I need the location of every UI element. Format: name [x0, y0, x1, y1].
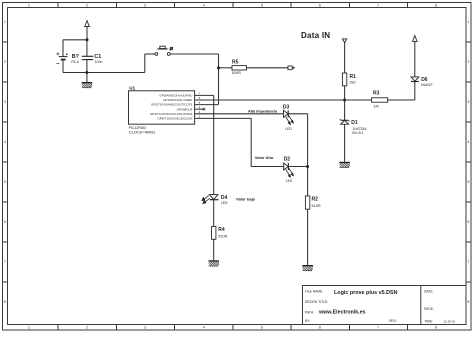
- svg-text:7: 7: [468, 260, 470, 264]
- svg-text:R1: R1: [350, 74, 357, 80]
- svg-text:R4: R4: [218, 227, 225, 233]
- svg-text:U1: U1: [129, 85, 135, 90]
- svg-text:2: 2: [4, 60, 6, 64]
- svg-text:8: 8: [435, 326, 437, 330]
- svg-text:BY:: BY:: [305, 319, 310, 323]
- svg-text:PAGE:: PAGE:: [424, 307, 434, 311]
- svg-text:510R: 510R: [232, 71, 241, 75]
- svg-text:D2: D2: [284, 156, 291, 162]
- svg-text:REV:: REV:: [389, 319, 397, 323]
- svg-text:100n: 100n: [95, 60, 103, 64]
- svg-text:1: 1: [468, 20, 470, 24]
- svg-text:3: 3: [144, 3, 146, 7]
- svg-text:DESIGN TITLE:: DESIGN TITLE:: [305, 300, 328, 304]
- svg-text:6: 6: [319, 326, 321, 330]
- svg-text:LED: LED: [221, 201, 228, 205]
- svg-text:PILA: PILA: [71, 60, 79, 64]
- svg-text:www.Electronik.es: www.Electronik.es: [318, 309, 366, 315]
- svg-text:D3: D3: [283, 105, 290, 111]
- svg-text:2: 2: [86, 326, 88, 330]
- svg-text:5: 5: [468, 180, 470, 184]
- svg-text:3: 3: [468, 100, 470, 104]
- svg-text:BV=5.1: BV=5.1: [352, 131, 363, 135]
- svg-text:2k2: 2k2: [350, 80, 356, 84]
- svg-text:DATE:: DATE:: [424, 290, 433, 294]
- svg-text:PATH:: PATH:: [305, 310, 314, 314]
- svg-text:7: 7: [377, 326, 379, 330]
- svg-text:7: 7: [377, 3, 379, 7]
- svg-text:Valor bajo: Valor bajo: [236, 197, 256, 202]
- svg-text:4: 4: [4, 140, 6, 144]
- svg-text:Alta impedancia: Alta impedancia: [248, 109, 278, 113]
- svg-text:R5: R5: [232, 60, 239, 66]
- svg-text:8: 8: [435, 3, 437, 7]
- svg-text:GP5/T1CKI/OSC1/CLKIN: GP5/T1CKI/OSC1/CLKIN: [157, 117, 192, 121]
- svg-text:GP2/T0CKI/AN2/COUT/CCP1: GP2/T0CKI/AN2/COUT/CCP1: [151, 103, 193, 107]
- svg-text:CLOCK=4MHz: CLOCK=4MHz: [129, 129, 156, 134]
- svg-text:R2: R2: [312, 197, 319, 203]
- svg-text:LED: LED: [285, 127, 292, 131]
- svg-text:GP1/AN1/CIN-/VREF: GP1/AN1/CIN-/VREF: [163, 98, 193, 102]
- svg-text:LED: LED: [286, 179, 293, 183]
- svg-text:5: 5: [261, 3, 263, 7]
- svg-text:FILE NAME:: FILE NAME:: [305, 290, 323, 294]
- svg-text:2: 2: [86, 3, 88, 7]
- svg-text:2: 2: [468, 60, 470, 64]
- svg-text:510R: 510R: [218, 234, 227, 238]
- svg-text:510R: 510R: [312, 204, 321, 208]
- svg-text:6: 6: [468, 220, 470, 224]
- svg-text:1M: 1M: [373, 105, 378, 109]
- svg-text:1: 1: [28, 3, 30, 7]
- svg-text:3: 3: [144, 326, 146, 330]
- svg-text:4: 4: [203, 326, 205, 330]
- svg-text:Data IN: Data IN: [301, 31, 330, 40]
- svg-text:R3: R3: [373, 91, 380, 97]
- svg-text:1N4007: 1N4007: [421, 83, 433, 87]
- svg-text:D1: D1: [351, 120, 358, 126]
- svg-text:6: 6: [319, 3, 321, 7]
- svg-text:8: 8: [4, 300, 6, 304]
- svg-text:1: 1: [4, 20, 6, 24]
- svg-text:5: 5: [261, 326, 263, 330]
- svg-text:7: 7: [4, 260, 6, 264]
- svg-text:4: 4: [468, 140, 470, 144]
- svg-text:8: 8: [468, 300, 470, 304]
- svg-text:Valor Alto: Valor Alto: [255, 155, 274, 160]
- svg-text:GP4/T1G/OSC2/CLKOUT/AN3: GP4/T1G/OSC2/CLKOUT/AN3: [150, 112, 193, 116]
- svg-text:6: 6: [4, 220, 6, 224]
- svg-text:TIME:: TIME:: [424, 319, 433, 323]
- svg-text:Logic prove plus v5.DSN: Logic prove plus v5.DSN: [334, 290, 398, 296]
- svg-text:3: 3: [4, 100, 6, 104]
- svg-text:4: 4: [203, 3, 205, 7]
- svg-text:11:39:01: 11:39:01: [443, 319, 455, 323]
- svg-text:GP3/MCLR: GP3/MCLR: [177, 107, 194, 111]
- svg-text:1: 1: [28, 326, 30, 330]
- svg-text:GP0/AN0/CIN+/ULPWU: GP0/AN0/CIN+/ULPWU: [159, 94, 192, 98]
- svg-text:5: 5: [4, 180, 6, 184]
